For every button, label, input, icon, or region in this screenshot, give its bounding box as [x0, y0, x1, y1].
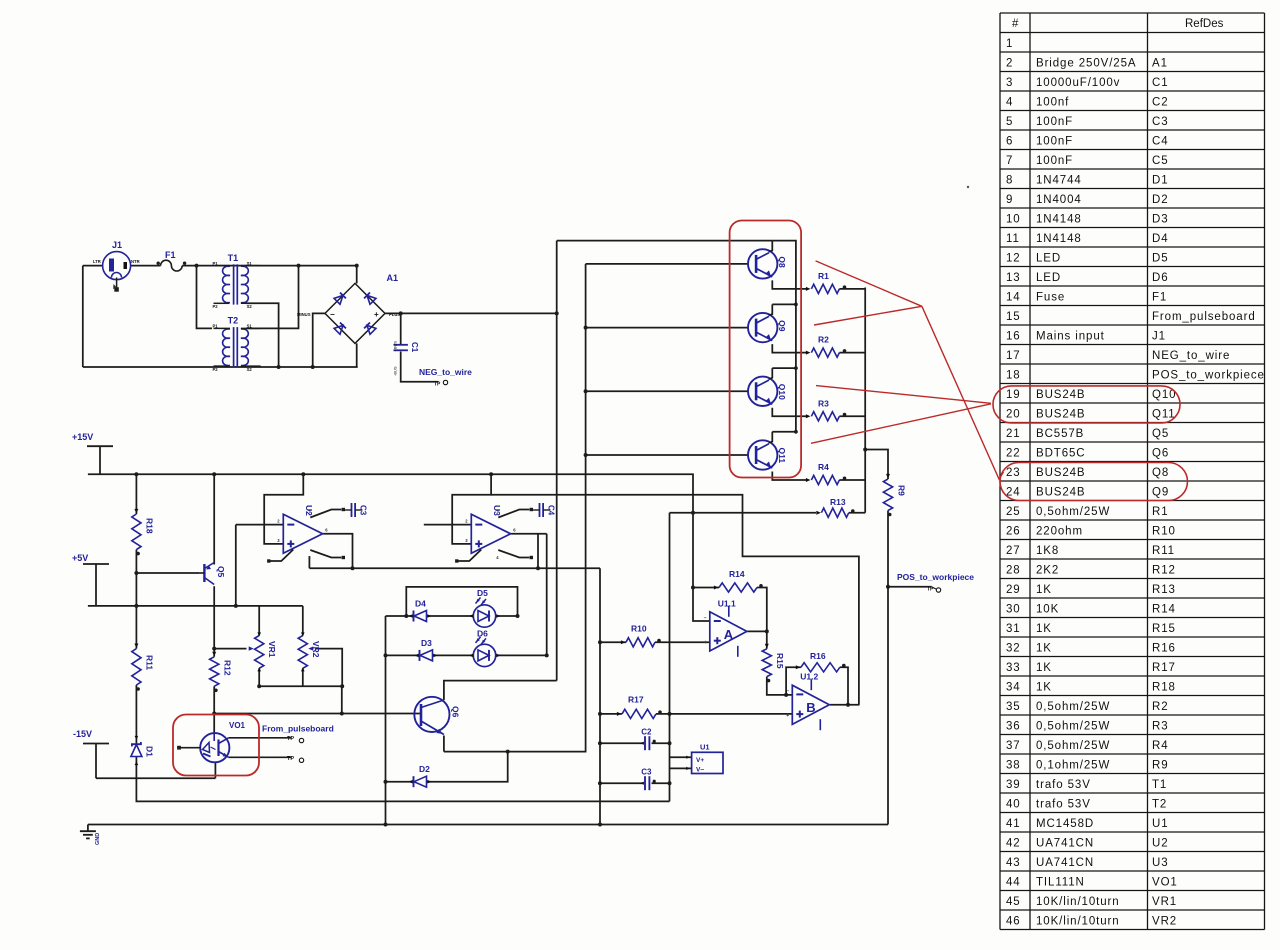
svg-text:Mains input: Mains input: [1036, 330, 1105, 342]
diode D4: [409, 599, 432, 622]
wire bus600: [599, 568, 601, 824]
svg-text:R2: R2: [818, 335, 829, 345]
svg-text:R1: R1: [818, 271, 829, 281]
svg-text:6: 6: [1006, 135, 1013, 147]
svg-text:0,5ohm/25W: 0,5ohm/25W: [1036, 701, 1110, 713]
capacitor C2: [640, 728, 656, 751]
svg-text:POS_to_workpiece: POS_to_workpiece: [1152, 369, 1265, 381]
svg-text:+: +: [704, 640, 707, 646]
svg-text:C3: C3: [1152, 116, 1169, 128]
svg-text:Fuse: Fuse: [1036, 291, 1065, 303]
svg-text:35: 35: [1006, 701, 1021, 713]
wire ground drop: [87, 825, 89, 832]
svg-text:13: 13: [1006, 272, 1021, 284]
svg-text:TIL111N: TIL111N: [1036, 876, 1085, 888]
wire Q6 base line: [214, 713, 421, 715]
diode D2: [409, 764, 432, 787]
svg-text:4: 4: [1006, 96, 1013, 108]
wire U3 output: [511, 533, 547, 535]
red highlight box around Q8-Q11: [730, 221, 802, 478]
wire D4 to D5: [427, 615, 474, 617]
wire bridge minus: [313, 313, 325, 367]
svg-text:43: 43: [1006, 857, 1021, 869]
red line convergence to stadium 23-24: [922, 306, 1004, 479]
svg-text:1K: 1K: [1036, 623, 1052, 635]
svg-text:V+: V+: [696, 757, 704, 764]
svg-text:R15: R15: [775, 653, 785, 669]
svg-text:12: 12: [1006, 252, 1021, 264]
wire T1 S2 to bottom: [246, 303, 279, 367]
terminal NEG_to_wire: [419, 367, 472, 388]
svg-text:MINUS: MINUS: [297, 312, 311, 317]
svg-text:Q9: Q9: [777, 320, 787, 332]
svg-text:RefDes: RefDes: [1185, 18, 1224, 30]
svg-text:Q5: Q5: [216, 566, 226, 578]
svg-text:U1: U1: [1152, 818, 1169, 830]
svg-text:C4: C4: [547, 505, 556, 516]
svg-text:R1: R1: [1152, 506, 1169, 518]
svg-text:22: 22: [1006, 447, 1021, 459]
red highlight box around VO1: [173, 715, 259, 776]
svg-text:R9: R9: [897, 485, 907, 496]
wire primary link vertical: [197, 266, 213, 329]
svg-text:trafo 53V: trafo 53V: [1036, 798, 1091, 810]
svg-text:UA741CN: UA741CN: [1036, 837, 1094, 849]
svg-text:D3: D3: [1152, 213, 1169, 225]
svg-text:C1: C1: [1152, 77, 1169, 89]
svg-text:S2: S2: [247, 367, 253, 372]
wire J1 to F1: [131, 265, 161, 267]
svg-text:V−: V−: [696, 767, 704, 774]
resistor R11: [132, 644, 155, 691]
svg-text:From_pulseboard: From_pulseboard: [262, 724, 334, 734]
potentiometer VR1: [249, 632, 278, 671]
wire D1 to bottom: [136, 756, 669, 801]
wire -15V drop: [95, 744, 97, 779]
fuse F1: [157, 250, 187, 271]
wire C1 top: [400, 313, 402, 344]
svg-text:UA741CN: UA741CN: [1036, 857, 1094, 869]
wire Q5 base: [136, 572, 199, 574]
svg-text:16: 16: [1006, 330, 1021, 342]
svg-text:+5V: +5V: [72, 553, 88, 563]
svg-text:D4: D4: [415, 599, 426, 609]
svg-text:46: 46: [1006, 915, 1021, 927]
wire U2 top loop: [264, 474, 303, 544]
svg-text:0,1ohm/25W: 0,1ohm/25W: [1036, 759, 1110, 771]
svg-text:R16: R16: [810, 651, 826, 661]
svg-text:R18: R18: [1152, 681, 1176, 693]
svg-text:R12: R12: [1152, 564, 1176, 576]
svg-text:100nF: 100nF: [1036, 135, 1073, 147]
svg-text:R13: R13: [1152, 584, 1176, 596]
wire D2 right up: [427, 752, 508, 782]
bridge rectifier A1: [297, 273, 400, 343]
svg-text:D5: D5: [477, 588, 488, 598]
svg-text:F1: F1: [165, 250, 176, 260]
svg-text:D1: D1: [145, 746, 155, 757]
svg-text:19: 19: [1006, 389, 1021, 401]
svg-text:1K: 1K: [1036, 642, 1052, 654]
svg-text:0,5ohm/25W: 0,5ohm/25W: [1036, 720, 1110, 732]
wire mid stub: [308, 556, 310, 568]
svg-text:5: 5: [1006, 116, 1013, 128]
svg-text:R17: R17: [628, 695, 644, 705]
svg-text:D4: D4: [1152, 233, 1169, 245]
LED D6: [469, 629, 501, 667]
svg-text:#: #: [1012, 18, 1019, 30]
svg-text:1K8: 1K8: [1036, 545, 1059, 557]
wire D4 left: [386, 615, 414, 617]
resistor R15: [762, 644, 785, 683]
svg-text:Q8: Q8: [1152, 467, 1169, 479]
svg-text:R4: R4: [818, 462, 829, 472]
svg-text:VR1: VR1: [267, 641, 277, 658]
svg-text:9: 9: [1006, 194, 1013, 206]
svg-text:39: 39: [1006, 779, 1021, 791]
svg-text:28: 28: [1006, 564, 1021, 576]
svg-text:41: 41: [1006, 818, 1021, 830]
wire VR bottoms: [259, 668, 342, 686]
svg-text:A: A: [724, 627, 734, 642]
svg-text:−: −: [330, 310, 335, 319]
svg-text:R14: R14: [729, 569, 745, 579]
red line Q8 to convergence: [816, 261, 922, 306]
svg-text:-15V: -15V: [73, 729, 92, 739]
op-amp U3 with capacitor C4: [455, 503, 555, 563]
svg-text:3: 3: [1006, 77, 1013, 89]
svg-text:C4: C4: [1152, 135, 1169, 147]
transistor Q5: [199, 563, 226, 585]
svg-text:37: 37: [1006, 740, 1021, 752]
svg-text:0,5ohm/25W: 0,5ohm/25W: [1036, 740, 1110, 752]
svg-text:T1: T1: [228, 253, 239, 263]
wire +15V drop: [99, 446, 101, 474]
wire VR1 top: [258, 606, 260, 636]
svg-text:POS_to_workpiece: POS_to_workpiece: [897, 572, 974, 582]
wire collector bus: [772, 241, 796, 432]
wire VO1 emitter: [214, 762, 216, 778]
svg-text:S2: S2: [247, 304, 253, 309]
power +5V: [72, 553, 109, 564]
LED D5: [469, 588, 501, 627]
resistor R4: [806, 462, 865, 485]
svg-text:LED: LED: [1036, 252, 1061, 264]
svg-text:MC1458D: MC1458D: [1036, 818, 1094, 830]
wire R13 right: [849, 512, 865, 514]
wire bridge bottom vertical: [356, 343, 358, 367]
transistor Q9: [748, 303, 807, 353]
wire A out: [747, 630, 767, 632]
wire U3 top loop: [452, 474, 491, 544]
svg-text:D2: D2: [1152, 194, 1169, 206]
svg-text:P1: P1: [213, 324, 219, 329]
wire D3 left: [386, 654, 420, 656]
wire C2 left: [600, 742, 643, 744]
svg-text:NTR: NTR: [131, 259, 140, 264]
svg-text:2: 2: [1006, 57, 1013, 69]
svg-text:C3: C3: [641, 768, 652, 777]
wire +5V line: [88, 605, 303, 607]
resistor R14: [714, 569, 763, 592]
resistor R2: [806, 335, 865, 358]
svg-text:26: 26: [1006, 525, 1021, 537]
svg-text:R3: R3: [818, 398, 829, 408]
svg-text:A1: A1: [387, 273, 399, 283]
svg-text:27: 27: [1006, 545, 1021, 557]
wire VR2 bottom: [302, 668, 304, 686]
potentiometer VR2: [298, 632, 321, 671]
svg-text:11: 11: [1006, 233, 1020, 245]
wire U2 minus drop: [235, 525, 237, 606]
svg-text:A1: A1: [1152, 57, 1168, 69]
wire C3 left: [600, 782, 643, 784]
svg-text:220ohm: 220ohm: [1036, 525, 1083, 537]
wire -15V line: [96, 777, 215, 779]
wire U3 output to D6: [546, 534, 548, 656]
svg-text:U2: U2: [1152, 837, 1169, 849]
svg-text:10000uF/100v: 10000uF/100v: [1036, 77, 1120, 89]
svg-text:VO1: VO1: [1152, 876, 1178, 888]
svg-text:C1: C1: [410, 342, 419, 353]
optocoupler VO1: [177, 721, 245, 762]
svg-text:40: 40: [1006, 798, 1021, 810]
svg-text:TP: TP: [434, 382, 441, 388]
resistor R18: [132, 509, 155, 555]
wire U1 vminus: [670, 767, 692, 769]
wire Q5 collector down: [213, 586, 215, 657]
svg-text:C3: C3: [359, 505, 368, 516]
capacitor C5: [640, 768, 656, 791]
wire VR2 top: [302, 606, 304, 636]
wire Q5 emitter up: [213, 474, 215, 564]
svg-text:J1: J1: [1152, 330, 1166, 342]
red stadium table rows 19-20 (Q10 Q11): [993, 386, 1180, 423]
resistor R17: [617, 695, 662, 719]
resistor R9: [883, 474, 906, 516]
svg-text:1: 1: [1006, 38, 1013, 50]
svg-text:BUS24B: BUS24B: [1036, 486, 1086, 498]
svg-text:GND: GND: [95, 833, 101, 845]
svg-text:1N4744: 1N4744: [1036, 174, 1082, 186]
wire mains top: [83, 265, 103, 267]
transistor Q11: [748, 430, 807, 480]
wire base Q11: [586, 454, 748, 456]
wire R15 to B minus: [767, 677, 793, 695]
wire T2 S1 link: [246, 265, 299, 329]
svg-text:1N4148: 1N4148: [1036, 233, 1082, 245]
diode D3: [415, 638, 438, 661]
svg-text:U1: U1: [700, 743, 710, 752]
svg-text:+: +: [786, 713, 789, 719]
transformer T2: [213, 316, 261, 372]
power +15V: [72, 432, 113, 446]
resistor R1: [806, 271, 865, 294]
wire mid horizontal: [309, 567, 600, 569]
svg-text:S1: S1: [247, 324, 253, 329]
wire J1 left down: [82, 266, 84, 367]
svg-text:R18: R18: [145, 518, 155, 534]
svg-text:10K/lin/10turn: 10K/lin/10turn: [1036, 915, 1120, 927]
wire bottom rail: [88, 824, 888, 826]
svg-text:T1: T1: [1152, 779, 1167, 791]
svg-text:18: 18: [1006, 369, 1021, 381]
svg-text:VR2: VR2: [1152, 915, 1177, 927]
svg-text:1N4004: 1N4004: [1036, 194, 1082, 206]
terminals From_pulseboard: [229, 724, 334, 763]
svg-text:R13: R13: [830, 497, 846, 507]
svg-text:R2: R2: [1152, 701, 1169, 713]
red line Q11 to stadium 19-20: [811, 404, 991, 444]
transistor Q6: [414, 697, 460, 735]
svg-text:R4: R4: [1152, 740, 1169, 752]
svg-text:D3: D3: [421, 638, 432, 648]
resistor R16: [796, 651, 846, 672]
svg-text:14: 14: [1006, 291, 1021, 303]
power -15V: [73, 729, 109, 744]
svg-text:10: 10: [1006, 213, 1021, 225]
wire +5V drop: [95, 564, 97, 606]
svg-text:-BUS: -BUS: [393, 366, 398, 376]
wire Q6 collector feed: [444, 681, 557, 700]
svg-text:45: 45: [1006, 896, 1021, 908]
svg-text:29: 29: [1006, 584, 1021, 596]
resistor R10: [621, 624, 661, 647]
wire R17 right to B plus: [656, 713, 792, 715]
red line Q9 to convergence: [814, 306, 922, 325]
svg-text:BUS24B: BUS24B: [1036, 467, 1086, 479]
wire main plus vertical: [556, 241, 558, 681]
svg-text:TP: TP: [287, 756, 294, 762]
wire base bus: [444, 264, 586, 752]
svg-text:1N4148: 1N4148: [1036, 213, 1082, 225]
wire VR1 wiper: [214, 648, 246, 650]
wire B out: [830, 704, 860, 706]
svg-text:From_pulseboard: From_pulseboard: [1152, 311, 1256, 323]
svg-text:23: 23: [1006, 467, 1021, 479]
svg-text:LED: LED: [1036, 272, 1061, 284]
wire D5 right: [496, 615, 518, 617]
svg-text:100nF: 100nF: [1036, 116, 1073, 128]
svg-text:38: 38: [1006, 759, 1021, 771]
svg-text:D5: D5: [1152, 252, 1169, 264]
wire R14 right: [757, 588, 767, 649]
svg-text:8: 8: [1006, 174, 1013, 186]
svg-text:TP: TP: [287, 736, 294, 742]
svg-text:15: 15: [1006, 311, 1021, 323]
wire mains bottom: [83, 366, 358, 368]
wire R12 to VO1: [213, 686, 215, 733]
svg-text:S1: S1: [247, 261, 253, 266]
svg-text:44: 44: [1006, 876, 1021, 888]
capacitor C1: [393, 341, 420, 376]
svg-text:LTR: LTR: [93, 259, 101, 264]
svg-text:1K: 1K: [1036, 681, 1052, 693]
resistor R13: [816, 497, 854, 517]
wire Q6 emitter: [443, 736, 445, 752]
svg-text:Q11: Q11: [1152, 408, 1176, 420]
svg-text:C2: C2: [1152, 96, 1169, 108]
svg-text:U3: U3: [1152, 857, 1169, 869]
wire A minus: [693, 588, 710, 622]
svg-text:42: 42: [1006, 837, 1021, 849]
IC U1 power pins: [686, 743, 723, 774]
svg-text:J1: J1: [112, 240, 122, 250]
wire D6 right: [496, 654, 547, 656]
svg-text:10K: 10K: [1036, 603, 1059, 615]
svg-text:R12: R12: [223, 660, 233, 676]
wire junctions: [134, 264, 890, 827]
svg-text:U1.2: U1.2: [800, 672, 818, 682]
wire F1 to T1 and bridge top: [182, 265, 357, 267]
op-amp U1.1 (A): [704, 598, 747, 657]
svg-text:34: 34: [1006, 681, 1021, 693]
wire R11 to D1: [135, 685, 137, 744]
wire VR2 wiper: [316, 649, 343, 687]
svg-text:R14: R14: [1152, 603, 1176, 615]
svg-text:VO1: VO1: [229, 721, 246, 730]
svg-text:33: 33: [1006, 662, 1021, 674]
wire D3 to D6: [433, 654, 474, 656]
wire U2 minus input: [236, 524, 283, 526]
wire R9 top link: [865, 450, 888, 480]
svg-text:+: +: [374, 310, 379, 319]
svg-text:0,5ohm/25W: 0,5ohm/25W: [1036, 506, 1110, 518]
wire bridge top vertical: [356, 266, 358, 284]
wire bus670: [669, 513, 671, 802]
wire POS terminal: [888, 586, 932, 588]
svg-text:D1: D1: [1152, 174, 1169, 186]
svg-text:P2: P2: [213, 367, 219, 372]
svg-text:1K: 1K: [1036, 662, 1052, 674]
zener diode D1: [131, 736, 155, 765]
op-amp U1.2 (B): [786, 672, 829, 731]
svg-text:VR2: VR2: [311, 641, 321, 658]
svg-text:31: 31: [1006, 623, 1021, 635]
wire U3 output drop: [537, 534, 539, 569]
wire base Q9: [586, 327, 748, 329]
wire R14 left: [693, 587, 719, 589]
svg-text:21: 21: [1006, 428, 1021, 440]
red line Q10 to stadium 19-20: [816, 386, 991, 404]
wire plus top to transistors: [557, 240, 773, 242]
svg-text:C5: C5: [1152, 155, 1169, 167]
parts table: [1000, 13, 1265, 930]
wire C1 bottom to NEG terminal: [401, 352, 439, 382]
wire U2 output: [323, 534, 353, 569]
wire R9 bottom: [887, 511, 889, 825]
svg-text:D6: D6: [477, 629, 488, 639]
op-amp U2 with capacitor C3: [267, 503, 367, 563]
svg-text:BUS24B: BUS24B: [1036, 408, 1086, 420]
svg-text:Q5: Q5: [1152, 428, 1169, 440]
svg-text:Bridge 250V/25A: Bridge 250V/25A: [1036, 57, 1136, 69]
svg-text:trafo 53V: trafo 53V: [1036, 779, 1091, 791]
terminal POS_to_workpiece: [897, 572, 974, 593]
wire R16 left: [786, 667, 801, 695]
svg-text:U1.1: U1.1: [718, 598, 736, 608]
svg-text:D2: D2: [419, 764, 430, 774]
wire LED bracket: [406, 587, 517, 616]
svg-text:R9: R9: [1152, 759, 1169, 771]
wire R10 line: [600, 641, 626, 643]
svg-text:BUS24B: BUS24B: [1036, 389, 1086, 401]
svg-text:+BUS: +BUS: [393, 341, 398, 352]
wire C3 right: [652, 782, 670, 784]
svg-text:T2: T2: [1152, 798, 1167, 810]
svg-text:BC557B: BC557B: [1036, 428, 1084, 440]
wire U1 vplus: [670, 756, 692, 758]
